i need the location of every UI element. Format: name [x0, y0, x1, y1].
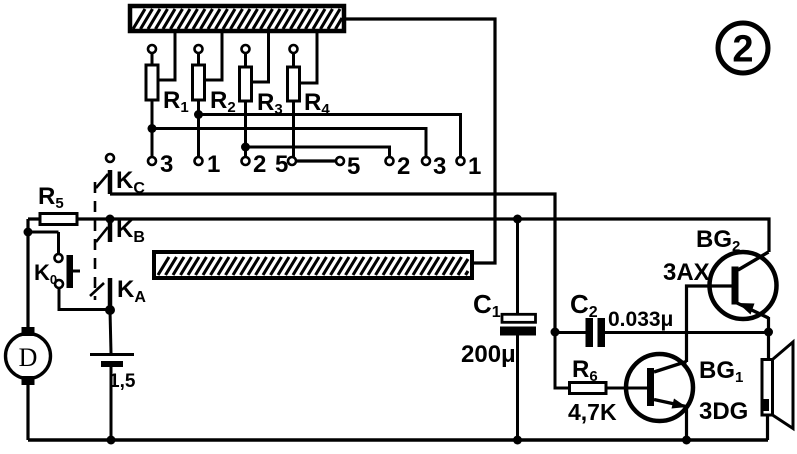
wire R4 to terminal 5: [292, 101, 295, 157]
wire R6 to BG1 base: [606, 387, 650, 390]
svg-text:3: 3: [160, 151, 173, 178]
middle resistance bar: [154, 252, 472, 278]
svg-text:3: 3: [433, 153, 446, 180]
transistor BG2: [663, 226, 777, 319]
capacitor C2: [555, 289, 605, 347]
terminal 5a: [275, 151, 296, 178]
svg-text:2: 2: [732, 29, 753, 71]
speaker: [762, 342, 793, 429]
junction on R1 stem: [148, 124, 157, 133]
wire BG2 emitter to speaker: [767, 317, 770, 359]
resistor R5: [38, 183, 77, 225]
svg-text:4,7K: 4,7K: [568, 399, 617, 425]
wire C2 to BG2 emitter node: [605, 331, 769, 334]
wire BG1 collector to BG2 base: [687, 286, 732, 362]
wire K0 to KA junction: [59, 288, 110, 310]
wire from top bar to middle bar: [344, 19, 495, 263]
switch KC: [96, 154, 145, 197]
wire motor to bottom rail: [26, 385, 29, 440]
wire R2 to terminal 1: [197, 100, 200, 157]
capacitor C1: [461, 219, 536, 440]
wire tap bar to R2: [205, 31, 223, 80]
terminal 2: [242, 151, 267, 178]
main supply wire R5 to BG2 collector: [28, 219, 769, 252]
wire tap bar to R1: [158, 31, 175, 80]
pushbutton K0: [28, 232, 80, 288]
wire battery to bottom rail: [110, 367, 113, 440]
switch KB: [96, 215, 145, 247]
resistor R3: [240, 45, 283, 118]
junction KC wire / C2 / R6: [551, 328, 560, 337]
junction BG2 emitter / C2: [764, 328, 773, 337]
terminal 3: [148, 151, 173, 178]
wire KA to battery: [110, 310, 111, 353]
wire tap bar to R3: [252, 31, 269, 82]
wire R3 junction to terminal 2b: [246, 147, 390, 157]
switch KA: [90, 276, 146, 315]
ganged switch link (dashed): [94, 182, 97, 300]
svg-text:2: 2: [397, 153, 410, 180]
svg-text:3AX: 3AX: [663, 259, 710, 286]
terminal 1b: [457, 153, 482, 180]
svg-text:3DG: 3DG: [699, 398, 748, 425]
figure number 2: [718, 23, 768, 73]
junction battery bottom: [107, 436, 116, 445]
svg-text:1,5: 1,5: [109, 371, 136, 392]
wire R3 to terminal 2: [244, 101, 247, 157]
svg-text:0.033μ: 0.033μ: [608, 308, 673, 331]
junction K0 branch on left rail: [24, 228, 33, 237]
top resistance bar: [130, 6, 344, 31]
bottom rail: [28, 438, 768, 442]
terminal 1: [195, 151, 221, 178]
svg-text:5: 5: [347, 153, 360, 180]
junction C1 top: [513, 215, 522, 224]
wire BG1 emitter to bottom rail: [685, 406, 688, 440]
resistor R4: [288, 45, 331, 118]
resistor R6: [555, 332, 617, 425]
terminal 3b: [422, 153, 446, 180]
left rail: [26, 219, 29, 327]
junction on R2 stem: [194, 110, 203, 119]
motor D: [6, 327, 51, 385]
wire speaker to bottom rail: [766, 415, 769, 440]
svg-text:1: 1: [468, 153, 481, 180]
resistor R1: [146, 45, 189, 116]
wire R2 junction to terminal 1b: [199, 115, 461, 158]
junction BG1 emitter bottom: [682, 436, 691, 445]
wire terminal 5a to terminal 5b: [296, 159, 336, 162]
svg-text:2: 2: [253, 151, 266, 178]
svg-text:D: D: [19, 343, 38, 372]
resistor R2: [193, 45, 236, 116]
wire KC to C2 junction: [110, 194, 555, 332]
terminal 2b: [386, 153, 411, 180]
terminal 5b: [336, 153, 360, 180]
battery 1.5V: [90, 355, 136, 393]
svg-text:5: 5: [275, 151, 288, 178]
junction on R3 stem: [241, 143, 250, 152]
junction C1 bottom: [513, 436, 522, 445]
transistor BG1: [626, 354, 748, 425]
svg-text:200μ: 200μ: [461, 341, 516, 368]
wire tap bar to R4: [300, 31, 318, 83]
svg-text:1: 1: [207, 151, 220, 178]
wire R1 to terminal 3: [151, 100, 154, 157]
wire R1 junction to terminal 3b: [152, 129, 426, 158]
